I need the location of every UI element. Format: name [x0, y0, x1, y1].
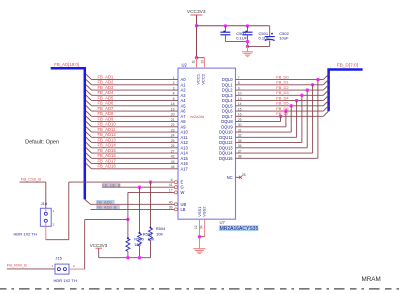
svg-text:6: 6	[171, 178, 173, 182]
ground symbol (VSS)	[193, 248, 205, 250]
svg-text:VCC3V3: VCC3V3	[187, 9, 206, 15]
svg-text:1: 1	[173, 76, 175, 80]
svg-text:U2: U2	[182, 63, 188, 68]
svg-text:4: 4	[173, 92, 175, 96]
svg-text:DQU9: DQU9	[221, 124, 233, 129]
node junction FB_D0	[316, 78, 319, 81]
wire DQU10 riser to FB_D5	[236, 131, 292, 133]
node junction C501 top	[246, 24, 249, 27]
svg-text:FB_D[7:0]: FB_D[7:0]	[337, 62, 358, 67]
wire E net to R504	[150, 182, 152, 228]
wire G net to R501	[139, 187, 141, 233]
node junction VSS	[198, 235, 201, 238]
ground symbol (decoupling)	[247, 46, 249, 51]
svg-text:HDR 1X2 TH: HDR 1X2 TH	[14, 232, 37, 237]
svg-text:21: 21	[171, 118, 175, 122]
wire FB_AD15 to pin A14	[86, 148, 92, 153]
svg-text:15: 15	[238, 107, 242, 111]
capacitor C500 0.1UF	[224, 26, 226, 32]
node junction FB_D4	[295, 99, 298, 102]
svg-text:16: 16	[238, 113, 242, 117]
svg-text:FB_R/W_B: FB_R/W_B	[7, 263, 27, 268]
svg-text:A1: A1	[181, 82, 187, 87]
wire J10 pin2 to E net	[45, 226, 47, 239]
resistor R504 10K	[150, 227, 152, 229]
node junction R504 on E wire	[149, 180, 152, 183]
svg-text:NC: NC	[227, 175, 233, 180]
wire DQL0 net FB_D0	[236, 79, 324, 81]
svg-text:FB_CS0_B: FB_CS0_B	[21, 176, 41, 181]
svg-text:28: 28	[242, 173, 246, 177]
capacitor C501 0.1UF	[247, 26, 249, 32]
svg-text:13: 13	[238, 97, 242, 101]
svg-text:18: 18	[171, 102, 175, 106]
svg-text:FB_AD2: FB_AD2	[98, 80, 114, 85]
wire FB_AD13 to pin A12	[86, 137, 92, 142]
svg-text:3: 3	[173, 86, 175, 90]
svg-text:20: 20	[171, 113, 175, 117]
svg-text:32: 32	[238, 134, 242, 138]
wire DQU13 riser to FB_D2	[236, 147, 308, 149]
wire VCC3V3 vertical to U2	[196, 15, 198, 58]
svg-text:DQL3: DQL3	[222, 93, 233, 98]
wire FB_AD8 to pin A7	[86, 111, 92, 116]
svg-text:MRAM: MRAM	[362, 276, 381, 283]
svg-text:5: 5	[173, 97, 175, 101]
wire FB_AD7 to pin A6	[86, 106, 92, 111]
svg-text:24: 24	[171, 134, 175, 138]
wire DQU14 riser to FB_D1	[236, 152, 313, 154]
wire C500 bottom to ground column	[225, 41, 247, 43]
node junction ground branch	[246, 45, 249, 48]
svg-text:FB_AD4: FB_AD4	[98, 90, 114, 95]
node junction FB_D6	[284, 109, 287, 112]
pin E (chip enable) pin 6 net FB_CS0_B	[69, 181, 175, 183]
svg-text:Default: Open: Default: Open	[25, 140, 59, 146]
node junction FB_D7	[279, 115, 282, 118]
svg-text:W: W	[181, 190, 185, 195]
wire DQU8 riser to FB_D7	[236, 121, 281, 123]
svg-text:DQU13: DQU13	[219, 145, 233, 150]
wire FB_AD17 to pin A16	[86, 158, 92, 163]
svg-text:26: 26	[171, 144, 175, 148]
pin NC pin 28 no-connect	[236, 176, 241, 178]
wire DQU11 riser to FB_D4	[236, 136, 297, 138]
wire VSS join	[200, 236, 205, 238]
svg-text:7: 7	[238, 76, 240, 80]
wire J15 pin2 riser to W net	[69, 268, 85, 270]
capacitor C502 10uF polarized	[269, 26, 271, 36]
IC U2 MRAM body	[178, 68, 236, 219]
svg-text:HDR 1X2 TH: HDR 1X2 TH	[54, 278, 77, 283]
svg-text:25: 25	[171, 139, 175, 143]
svg-text:FB_AD6: FB_AD6	[98, 101, 114, 106]
svg-text:34: 34	[200, 225, 204, 229]
wire DQU15 riser to FB_D0	[236, 157, 318, 159]
svg-text:A15: A15	[181, 156, 189, 161]
wire DQL6 net FB_D6	[236, 110, 324, 112]
node junction FB_D2	[306, 88, 309, 91]
svg-text:DQL1: DQL1	[222, 82, 233, 87]
svg-text:44: 44	[171, 165, 175, 169]
svg-text:J10: J10	[41, 201, 48, 206]
svg-text:FB_D7: FB_D7	[276, 111, 289, 116]
wire DQL4 net FB_D4	[236, 100, 324, 102]
node VCC junction at rail	[195, 24, 198, 27]
svg-text:0.1UF: 0.1UF	[236, 36, 247, 41]
svg-text:29: 29	[238, 118, 242, 122]
svg-text:A9: A9	[181, 124, 187, 129]
wire FB_AD9 to pin A8	[86, 116, 92, 121]
pin VCC2 pin 33	[203, 58, 205, 68]
wire DQU12 riser to FB_D3	[236, 142, 302, 144]
svg-text:10K: 10K	[156, 231, 163, 236]
svg-text:DQU11: DQU11	[219, 135, 233, 140]
svg-text:FB_AD10: FB_AD10	[98, 122, 117, 127]
resistor R501 10K	[139, 232, 141, 234]
wire FB_AD11 to pin A10	[86, 127, 92, 132]
svg-text:2: 2	[173, 81, 175, 85]
node junction R501 on G wire	[138, 186, 141, 189]
svg-text:12: 12	[194, 225, 198, 229]
svg-text:DQU15: DQU15	[219, 156, 233, 161]
wire DQL1 net FB_D1	[236, 84, 324, 86]
node junction R500 bottom	[126, 256, 129, 259]
svg-text:FB_AD14: FB_AD14	[98, 143, 117, 148]
wire FB_AD3 to pin A2	[86, 85, 92, 90]
wire VCC rail horizontal	[197, 25, 270, 27]
svg-text:8: 8	[238, 81, 240, 85]
svg-text:22: 22	[171, 123, 175, 127]
svg-text:A17: A17	[181, 166, 189, 171]
wire FB_AD14 to pin A13	[86, 142, 92, 147]
svg-text:A13: A13	[181, 145, 189, 150]
svg-text:A7: A7	[181, 114, 187, 119]
wire DQU9 riser to FB_D6	[236, 126, 286, 128]
svg-text:42: 42	[171, 155, 175, 159]
wire FB_AD16 to pin A15	[86, 153, 92, 158]
svg-text:10: 10	[238, 92, 242, 96]
node junction W riser	[126, 218, 129, 221]
wire C502 bottom return	[248, 45, 270, 47]
svg-text:R504: R504	[156, 226, 166, 231]
svg-text:31: 31	[238, 128, 242, 132]
svg-text:MR2A16ACYS35: MR2A16ACYS35	[220, 226, 259, 232]
svg-text:FB_D5: FB_D5	[276, 101, 289, 106]
pin UB pin 40 net FB_AD0	[96, 200, 114, 204]
svg-text:30: 30	[238, 123, 242, 127]
svg-text:37: 37	[238, 149, 242, 153]
svg-text:DQL5: DQL5	[222, 103, 233, 108]
wire FB_AD1 to pin A0	[86, 74, 92, 79]
bus entry FB_AD0 from bus bottom	[85, 199, 91, 204]
svg-text:23: 23	[171, 128, 175, 132]
svg-text:VCC3V3: VCC3V3	[90, 243, 108, 248]
svg-text:41: 41	[169, 183, 173, 187]
svg-text:FB_AD16: FB_AD16	[98, 153, 117, 158]
wire FB_AD4 to pin A3	[86, 90, 92, 95]
pin LB pin 39 net FB_AD0_B	[96, 205, 120, 209]
svg-text:14: 14	[238, 102, 242, 106]
wire DQL3 net FB_D3	[236, 94, 324, 96]
svg-text:11: 11	[192, 60, 196, 64]
resistor R500 10K	[127, 237, 129, 239]
svg-text:35: 35	[238, 139, 242, 143]
wire FB_AD12 to pin A11	[86, 132, 92, 137]
svg-text:FB_AD0_B: FB_AD0_B	[97, 205, 117, 210]
node junction C500	[224, 24, 227, 27]
svg-text:43: 43	[171, 160, 175, 164]
svg-text:10uF: 10uF	[279, 36, 289, 41]
svg-text:17: 17	[169, 188, 173, 192]
svg-text:40: 40	[169, 200, 173, 204]
wire DQL2 net FB_D2	[236, 89, 324, 91]
svg-text:36: 36	[238, 144, 242, 148]
wire VCC rail to resistors	[99, 257, 151, 259]
svg-text:FB_D3: FB_D3	[276, 90, 289, 95]
wire DQL5 net FB_D5	[236, 105, 324, 107]
svg-text:A5: A5	[181, 103, 187, 108]
part MR2A16ACYS35 highlighted	[219, 225, 259, 231]
wire FB_AD6 to pin A5	[86, 100, 92, 105]
svg-text:FB_D1: FB_D1	[276, 80, 289, 85]
svg-text:A11: A11	[181, 135, 189, 140]
svg-text:FB_AD[19:0]: FB_AD[19:0]	[54, 62, 79, 67]
wire W net to R500	[127, 192, 129, 238]
svg-text:38: 38	[238, 155, 242, 159]
svg-text:A3: A3	[181, 93, 187, 98]
svg-text:DQL7: DQL7	[222, 114, 233, 119]
svg-text:VCC2: VCC2	[200, 73, 205, 84]
wire FB_AD18 to pin A17	[86, 163, 92, 168]
svg-text:9: 9	[238, 86, 240, 90]
svg-text:FB_AD8: FB_AD8	[98, 111, 114, 116]
wire DQL7 net FB_D7	[236, 115, 324, 117]
svg-text:VSS2: VSS2	[202, 206, 207, 217]
svg-text:mr2a16a: mr2a16a	[190, 115, 204, 119]
svg-text:39: 39	[169, 205, 173, 209]
svg-text:19: 19	[171, 107, 175, 111]
pin VCC1 pin 11	[195, 56, 198, 59]
node junction FB_D5	[290, 104, 293, 107]
svg-text:J15: J15	[55, 256, 62, 261]
pin G (output enable) pin 41 net FB_OE_B	[102, 183, 121, 187]
svg-text:U7: U7	[220, 220, 226, 225]
svg-text:27: 27	[171, 149, 175, 153]
svg-text:FB_AD18: FB_AD18	[98, 164, 117, 169]
svg-text:FB_OE_B: FB_OE_B	[102, 183, 120, 188]
node junction R501 bottom	[138, 256, 141, 259]
wire FB_AD2 to pin A1	[86, 79, 92, 84]
node junction FB_D3	[300, 94, 303, 97]
pin W (write enable) pin 17	[128, 191, 174, 193]
title block dashed border	[0, 288, 399, 290]
svg-text:LB: LB	[181, 207, 186, 212]
node junction C500 bottom	[246, 40, 249, 43]
node junction FB_D1	[311, 83, 314, 86]
svg-text:FB_AD12: FB_AD12	[98, 132, 117, 137]
svg-text:33: 33	[200, 60, 204, 64]
wire FB_AD10 to pin A9	[86, 121, 92, 126]
wire FB_AD5 to pin A4	[86, 95, 92, 100]
